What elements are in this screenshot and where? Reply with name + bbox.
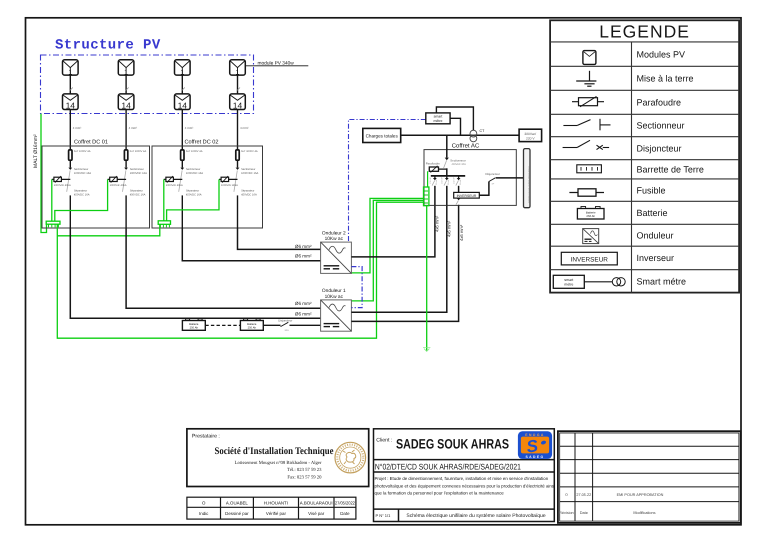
svg-text:27.05.22: 27.05.22 [576, 493, 591, 497]
svg-text:Prestataire :: Prestataire : [192, 434, 220, 440]
svg-text:mètre: mètre [434, 119, 443, 123]
svg-text:C32 4P: C32 4P [453, 177, 456, 184]
wire: inverseur to disjoncteur D4 [479, 182, 489, 196]
wire: sectionneur S1 lower contact down [69, 195, 71, 228]
svg-text:450VDC 16A: 450VDC 16A [241, 194, 257, 197]
legend symbol: mise a la terre [576, 71, 596, 86]
svg-text:250 Ah: 250 Ah [586, 214, 595, 218]
fuse F1 [69, 150, 72, 160]
legend symbol: module PV [583, 51, 596, 65]
wire: grid entry into coffret AC [446, 135, 448, 157]
legend symbol: smart metre [553, 275, 625, 288]
wire: inverter U1 to inverseur backup line [351, 205, 458, 321]
svg-text:Coffret AC: Coffret AC [452, 142, 480, 149]
grid connection box 380V/220V [519, 129, 542, 141]
svg-text:INVERSEUR: INVERSEUR [571, 256, 609, 263]
stamp (societe seal) [335, 442, 366, 473]
svg-text:Ø6 mm²: Ø6 mm² [295, 254, 312, 259]
wire: sectionneur S2 lower contact down [125, 195, 127, 228]
earth wire: barrette TAC to earth electrode [426, 206, 428, 351]
Coffret DC 01 enclosure [42, 146, 150, 228]
wire: disjoncteur DB to inverter U1 battery input [290, 324, 321, 326]
PV module M1 [63, 60, 79, 77]
svg-text:Indic: Indic [199, 511, 209, 516]
fuse F3 [181, 150, 184, 160]
svg-text:Séparateur: Séparateur [130, 190, 143, 193]
svg-text:250 Ah: 250 Ah [190, 326, 199, 329]
sectionneur S1 (DC switch) [68, 168, 72, 170]
SADEG logo [518, 431, 552, 459]
wire: module M3 to string box [181, 75, 183, 94]
svg-text:Modifications: Modifications [633, 511, 655, 515]
svg-text:Sectionneur: Sectionneur [450, 159, 465, 163]
earth wire: parafoudre P3 to barrette T2 [163, 179, 165, 220]
svg-text:buT 1000V 4A: buT 1000V 4A [74, 150, 91, 153]
svg-text:4x6 mm²: 4x6 mm² [447, 220, 452, 237]
svg-text:Société d'Installation Techniq: Société d'Installation Technique [215, 446, 334, 457]
wire: string 2 down to coffret DC [125, 110, 127, 150]
svg-text:Coffret DC 01: Coffret DC 01 [74, 139, 108, 146]
svg-text:Modules PV: Modules PV [637, 49, 686, 59]
svg-text:32A: 32A [285, 329, 290, 332]
svg-text:SADEG SOUK AHRAS: SADEG SOUK AHRAS [396, 437, 509, 452]
svg-text:Date: Date [340, 511, 350, 516]
svg-text:1000Vdc 40kA: 1000Vdc 40kA [166, 184, 183, 187]
wire: module M2 to string box [125, 75, 127, 94]
parafoudre P2 (DC surge arrester) [108, 176, 127, 183]
wire: sectionneur S4 lower contact down [237, 195, 239, 228]
svg-text:Dessiné par: Dessiné par [225, 511, 249, 516]
svg-text:400VAC 32A: 400VAC 32A [452, 163, 467, 166]
svg-text:que la formation du personnel: que la formation du personnel pour l'exp… [375, 491, 505, 496]
wire: string 1 to inverter U1 input - [70, 228, 320, 318]
svg-text:1000VDC 16A: 1000VDC 16A [130, 172, 147, 175]
svg-text:Fax: 023 57 59 20: Fax: 023 57 59 20 [287, 475, 322, 481]
svg-text:LEGENDE: LEGENDE [599, 21, 690, 41]
svg-text:MALT Ø16mm²: MALT Ø16mm² [33, 134, 39, 168]
earth wire: parafoudre P1 to barrette T1 [51, 179, 53, 221]
battery BAT1 [182, 319, 205, 331]
svg-text:14: 14 [66, 100, 76, 110]
svg-text:C32 4P: C32 4P [441, 177, 444, 184]
wire: string 3 down to coffret DC [181, 110, 183, 150]
title block: prestataire box [187, 429, 369, 487]
svg-text:4 mm²: 4 mm² [185, 126, 194, 130]
AC distribution bus [431, 175, 465, 177]
disjoncteur D1 (AC breaker) [434, 176, 436, 178]
parafoudre P3 (DC surge arrester) [164, 176, 183, 183]
disjoncteur D5 (below inverseur) [457, 198, 461, 200]
svg-text:CT: CT [480, 129, 486, 133]
wire: fuse F2 to sectionneur [125, 160, 127, 167]
disjoncteur DB (battery breaker) [281, 322, 289, 326]
svg-text:27/05/2022: 27/05/2022 [335, 501, 355, 506]
PV string box 2 (14 modules) [118, 94, 134, 110]
svg-text:Projet : Etude de dimentionnem: Projet : Etude de dimentionnement, fourn… [375, 476, 549, 481]
wire: fuse F4 to sectionneur [237, 160, 239, 167]
svg-text:4 mm²: 4 mm² [240, 126, 249, 130]
svg-text:Smart métre: Smart métre [637, 276, 687, 286]
svg-text:C32 4P: C32 4P [429, 177, 432, 184]
svg-text:450VDC 16A: 450VDC 16A [74, 194, 90, 197]
svg-text:Onduleur 1: Onduleur 1 [322, 288, 346, 294]
PV string box 1 (14 modules) [63, 94, 79, 110]
wire: string 4 down to coffret DC [237, 110, 239, 150]
svg-text:métre: métre [564, 282, 573, 286]
svg-text:4 mm²: 4 mm² [73, 126, 82, 130]
svg-text:Coffret DC 02: Coffret DC 02 [184, 139, 218, 146]
barrette de terre TAC (green, coffret AC) [424, 187, 429, 206]
svg-text:Vérifié par: Vérifié par [266, 511, 287, 516]
wire: charges totales to CT / grid [401, 134, 519, 136]
earth wire: barrette T2 to barrette T1 link [57, 224, 160, 236]
svg-text:EMI POUR APPROBATION: EMI POUR APPROBATION [617, 493, 664, 497]
svg-text:Disjoncteur: Disjoncteur [637, 143, 682, 153]
wire: inverter U1 AC output to coffret AC [351, 205, 446, 312]
earth wire: PE inverter U2 [351, 198, 423, 273]
svg-text:Onduleur 2: Onduleur 2 [322, 230, 346, 236]
svg-text:250 Ah: 250 Ah [248, 326, 257, 329]
Coffret AC enclosure [424, 150, 516, 206]
fuse F4 [236, 150, 239, 160]
wire: smart meter to CT [436, 107, 473, 130]
wire: module M4 to string box [237, 75, 239, 94]
svg-text:Ø6 mm²: Ø6 mm² [295, 301, 312, 306]
title block: client box [374, 429, 555, 522]
disjoncteur D2 (AC breaker) [446, 176, 448, 178]
barrette de terre T2 (coffret DC 02) [158, 221, 170, 228]
disjoncteur D3 (AC breaker) [458, 176, 460, 178]
svg-text:Lotissement Mougset n°08 Birkh: Lotissement Mougset n°08 Birkhadem - Alg… [235, 460, 322, 466]
svg-text:10Kw ac: 10Kw ac [325, 294, 344, 300]
legend symbol: onduleur [583, 229, 599, 244]
inverter U1 (Onduleur 1 10Kw ac) [321, 300, 352, 331]
battery BAT2 [240, 319, 263, 331]
smart meter box [426, 113, 450, 124]
barrette de terre T1 (coffret DC 01) [46, 221, 60, 227]
svg-text:O: O [202, 501, 206, 506]
wire: fuse F3 to sectionneur [181, 160, 183, 167]
wire: battery link (dashed) [205, 324, 240, 326]
legend table [550, 20, 739, 292]
svg-text:220 V: 220 V [526, 136, 535, 140]
signal wire: smart meter to inverters (blue dash-dot) [349, 120, 426, 243]
wire: smart meter tap to main line [450, 118, 460, 135]
title block: signatures table [187, 497, 356, 519]
svg-text:450VDC 16A: 450VDC 16A [130, 194, 146, 197]
sectionneur S4 (DC switch) [236, 168, 240, 170]
inverseur (transfer switch) [454, 192, 480, 198]
svg-text:Visé par: Visé par [308, 511, 325, 516]
svg-text:14: 14 [121, 100, 131, 110]
svg-text:Mise à la terre: Mise à la terre [637, 74, 694, 84]
svg-text:Séparateur: Séparateur [186, 190, 199, 193]
svg-text:30mA: 30mA [435, 179, 438, 185]
svg-text:4 mm²: 4 mm² [129, 126, 138, 130]
svg-text:380Vac/: 380Vac/ [524, 132, 536, 136]
svg-text:Tél.: 023 57 59 23: Tél.: 023 57 59 23 [287, 467, 322, 473]
wire: breaker D2 down to cable 2 [446, 186, 448, 206]
svg-text:1000VDC 16A: 1000VDC 16A [74, 172, 91, 175]
legend symbol: sectionneur [563, 119, 610, 131]
svg-text:Structure PV: Structure PV [55, 38, 161, 54]
svg-text:450VDC 16A: 450VDC 16A [186, 194, 202, 197]
legend symbol: fusible [569, 189, 604, 196]
inverter U2 (Onduleur 2 10Kw ac) [321, 242, 352, 273]
svg-text:Ø6 mm²: Ø6 mm² [295, 244, 312, 249]
svg-text:Charges totales: Charges totales [366, 133, 399, 138]
wire: sectionneur S3 lower contact down [181, 195, 183, 228]
svg-text:Séparateur: Séparateur [74, 190, 87, 193]
svg-text:N°02/DTE/CD SOUK AHRAS/RDE/SAD: N°02/DTE/CD SOUK AHRAS/RDE/SADEG/2021 [375, 462, 521, 471]
wire: string 4 to inverter U2 input + [238, 228, 321, 249]
PV module M2 [118, 60, 134, 77]
svg-text:10Kw ac: 10Kw ac [325, 236, 344, 242]
svg-text:buT 1000V 4A: buT 1000V 4A [241, 150, 258, 153]
svg-text:H.HOUANTI: H.HOUANTI [264, 501, 288, 506]
CT (current transformer) [470, 130, 477, 137]
wire: string 1 down to coffret DC [69, 110, 71, 150]
svg-text:Sectionneur: Sectionneur [637, 121, 685, 131]
svg-text:30mA: 30mA [459, 179, 462, 185]
svg-text:Disjoncteur: Disjoncteur [278, 319, 292, 323]
svg-text:Disjoncteur: Disjoncteur [486, 172, 500, 176]
svg-text:buT 1000V 4A: buT 1000V 4A [186, 150, 203, 153]
wire: battery BAT2 to disjoncteur DB [263, 324, 280, 326]
svg-text:photovoltaïque et des équipeme: photovoltaïque et des équipement connexe… [375, 483, 556, 488]
svg-text:Révision: Révision [559, 511, 574, 515]
svg-text:P N° 1/1: P N° 1/1 [376, 513, 392, 518]
svg-text:Sectionneur: Sectionneur [186, 168, 200, 171]
svg-text:14: 14 [178, 100, 188, 110]
svg-text:4x6 mm²: 4x6 mm² [435, 215, 440, 232]
svg-text:Batterie: Batterie [637, 208, 668, 218]
PV string box 3 (14 modules) [175, 94, 191, 110]
svg-text:30mA: 30mA [447, 179, 450, 185]
sectionneur S3 (DC switch) [180, 168, 184, 170]
PV module M4 [230, 60, 246, 77]
earth wire: parafoudre PAC to barrette TAC [427, 171, 429, 187]
svg-text:Parafoudre: Parafoudre [426, 162, 441, 166]
svg-text:1000Vdc 40kA: 1000Vdc 40kA [54, 184, 71, 187]
svg-text:smart: smart [564, 278, 573, 282]
wire: disjoncteur D4 to main barrette [496, 177, 524, 179]
sectionneur SAC (AC main switch) [445, 158, 449, 161]
svg-text:1000Vdc 40kA: 1000Vdc 40kA [221, 184, 238, 187]
parafoudre P4 (DC surge arrester) [219, 176, 238, 183]
svg-text:1000Vdc 40kA: 1000Vdc 40kA [110, 184, 127, 187]
svg-text:Parafoudre: Parafoudre [637, 98, 682, 108]
svg-text:Ø6 mm²: Ø6 mm² [295, 311, 312, 316]
svg-text:Barrette de Terre: Barrette de Terre [637, 165, 704, 175]
svg-text:INVERSEUR: INVERSEUR [457, 194, 477, 198]
wire: module M1 to string box [69, 75, 71, 94]
wire: inverter U2 AC output to coffret AC [351, 205, 435, 257]
svg-text:Schéma électrique unifilaire d: Schéma électrique unifilaire du système … [406, 513, 545, 519]
svg-text:Sectionneur: Sectionneur [74, 168, 88, 171]
ground (earth electrode) [424, 349, 429, 352]
wire: string 2 to inverter U1 input + [126, 228, 321, 308]
earth wire: PE inverter U1 [351, 200, 423, 301]
Coffret DC 02 enclosure [152, 146, 263, 228]
MALT earth conductor from PV structure [41, 114, 47, 233]
svg-text:Fusible: Fusible [637, 185, 666, 195]
legend symbol: parafoudre [572, 96, 604, 106]
legend symbol: disjoncteur [563, 140, 610, 149]
PV module M3 [175, 60, 191, 77]
svg-text:Client :: Client : [376, 438, 392, 444]
svg-text:14: 14 [233, 100, 243, 110]
svg-text:Date: Date [580, 511, 588, 515]
label: module PV 340w [246, 65, 309, 67]
svg-text:A.OUABEL: A.OUABEL [226, 501, 249, 506]
sectionneur S2 (DC switch) [124, 168, 128, 170]
fuse F2 [124, 150, 127, 160]
svg-text:buT 1000V 4A: buT 1000V 4A [130, 150, 147, 153]
svg-text:4x6 mm²: 4x6 mm² [459, 224, 464, 241]
wire: breaker D1 down to cable 1 [434, 186, 436, 206]
wire: fuse F1 to sectionneur [69, 160, 71, 167]
legend symbol: batterie [577, 207, 604, 220]
wire: string 3 to inverter U2 input - [182, 228, 320, 261]
main earth barrette (barrette de terre principale) [524, 149, 531, 208]
PV string box 4 (14 modules) [230, 94, 246, 110]
charges totales box [363, 128, 401, 142]
title block: revision table [558, 431, 741, 523]
svg-text:BARRETTE DE TERRE PRINCIPALE: BARRETTE DE TERRE PRINCIPALE [527, 166, 530, 203]
PV array frame (dashed) [41, 55, 254, 114]
svg-text:1000VDC 16A: 1000VDC 16A [186, 172, 203, 175]
earth wire: parafoudre P4 to barrette T2 [167, 179, 219, 220]
svg-text:A.BOULARAOUI: A.BOULARAOUI [300, 501, 333, 506]
svg-text:Sectionneur: Sectionneur [241, 168, 255, 171]
wire: sectionneur to AC bus [446, 168, 448, 176]
legend symbol: barrette de terre [577, 165, 602, 173]
svg-text:Inverseur: Inverseur [637, 253, 675, 263]
wire: breaker D3 down to inverseur [458, 186, 460, 193]
parafoudre P1 (DC surge arrester) [52, 176, 71, 183]
svg-text:module PV 340w: module PV 340w [258, 60, 295, 66]
svg-text:1000VDC 16A: 1000VDC 16A [241, 172, 258, 175]
svg-text:Sectionneur: Sectionneur [130, 168, 144, 171]
legend symbol: inverseur [561, 252, 617, 265]
svg-text:Séparateur: Séparateur [241, 190, 254, 193]
earth wire: parafoudre P2 to barrette T1 [55, 179, 108, 221]
svg-text:Onduleur: Onduleur [637, 230, 674, 240]
earth bus: main green PE bus to coffret AC [57, 202, 423, 338]
